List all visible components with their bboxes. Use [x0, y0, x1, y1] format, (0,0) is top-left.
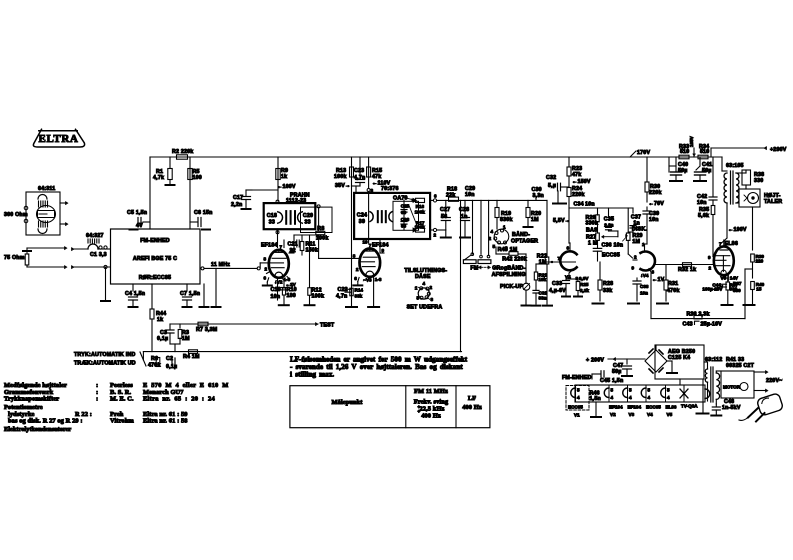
svg-text:7: 7 — [558, 256, 561, 261]
svg-text:~V3: ~V3 — [363, 278, 372, 283]
svg-text:E 570 M 4 eller E 610 M: E 570 M 4 eller E 610 M — [143, 382, 229, 389]
svg-text:TRYK:AUTOMATIK IND: TRYK:AUTOMATIK IND — [74, 352, 135, 358]
svg-text:7: 7 — [369, 243, 372, 248]
svg-text:ECC85: ECC85 — [568, 405, 583, 410]
svg-text:47k: 47k — [572, 172, 581, 178]
svg-text:1n-5kV: 1n-5kV — [722, 405, 741, 411]
svg-text:BAS: BAS — [586, 228, 598, 234]
svg-text:9: 9 — [382, 248, 385, 253]
svg-text:10n: 10n — [271, 294, 281, 300]
svg-text:180: 180 — [287, 293, 296, 299]
svg-text:64:311: 64:311 — [38, 186, 55, 192]
svg-text:+200V: +200V — [770, 147, 787, 153]
svg-text:1-3: 1-3 — [375, 277, 382, 282]
svg-text:100k: 100k — [334, 174, 347, 180]
svg-text:5: 5 — [667, 388, 670, 393]
svg-text:0,9V: 0,9V — [579, 276, 589, 281]
svg-text:300 Ohm: 300 Ohm — [4, 212, 28, 218]
svg-text:510: 510 — [680, 149, 689, 155]
svg-text:R14: R14 — [355, 288, 364, 293]
svg-text:C25: C25 — [401, 204, 410, 209]
svg-text:TRÆK:AUTOMATIK UD: TRÆK:AUTOMATIK UD — [74, 361, 136, 367]
svg-text:RØR:ECC85: RØR:ECC85 — [139, 275, 171, 281]
svg-text:64:327: 64:327 — [86, 233, 104, 239]
svg-text:R28: R28 — [603, 281, 613, 287]
svg-text:70:376: 70:376 — [381, 186, 399, 192]
svg-text:6: 6 — [567, 246, 570, 251]
svg-text:←70V: ←70V — [649, 201, 665, 207]
svg-text:50µ: 50µ — [678, 168, 688, 174]
svg-text:C26: C26 — [401, 217, 410, 222]
svg-text:Elektrolytkondensatorer: Elektrolytkondensatorer — [4, 426, 71, 433]
svg-text:4: 4 — [491, 229, 494, 234]
svg-text:220: 220 — [756, 259, 764, 264]
svg-text:GRogBÅND-: GRogBÅND- — [492, 265, 525, 272]
svg-text:4,7n: 4,7n — [354, 175, 365, 181]
svg-text:39: 39 — [359, 219, 365, 225]
svg-text:Medfølgende højttaler: Medfølgende højttaler — [4, 382, 67, 389]
svg-text:←1V: ←1V — [652, 277, 665, 283]
svg-text:2: 2 — [356, 267, 359, 272]
svg-text:2,2k: 2,2k — [580, 288, 589, 293]
svg-text:↓V4: ↓V4 — [641, 273, 649, 278]
svg-text:FM-ENHED: FM-ENHED — [140, 238, 170, 244]
svg-text:1n: 1n — [461, 214, 468, 220]
svg-text:2,2n: 2,2n — [231, 202, 242, 208]
svg-text:R7 3,3M: R7 3,3M — [196, 327, 218, 333]
svg-text:Potentiometre: Potentiometre — [4, 404, 43, 411]
svg-text:8: 8 — [353, 253, 356, 258]
svg-text:2: 2 — [634, 255, 637, 260]
svg-text:4: 4 — [611, 395, 614, 400]
svg-text:4,7k: 4,7k — [153, 175, 164, 181]
svg-text:150k: 150k — [306, 248, 319, 254]
svg-text:5: 5 — [493, 244, 496, 249]
svg-text:100µ-25V: 100µ-25V — [702, 287, 723, 292]
svg-text:0,1µ: 0,1µ — [157, 336, 168, 342]
svg-text:C24: C24 — [357, 213, 367, 219]
svg-text:170V: 170V — [637, 150, 650, 156]
svg-text:TILSLUTNINGS-: TILSLUTNINGS- — [404, 268, 447, 274]
svg-text:4: 4 — [577, 395, 580, 400]
svg-text:22,5 kHz: 22,5 kHz — [420, 406, 445, 413]
svg-text:C4 1,5n: C4 1,5n — [125, 291, 145, 297]
svg-text:63:105: 63:105 — [726, 163, 744, 169]
svg-text:2: 2 — [265, 267, 268, 272]
svg-text:5: 5 — [577, 388, 580, 393]
svg-text:MOTOR: MOTOR — [723, 385, 741, 390]
svg-text:+: + — [418, 409, 421, 414]
svg-text:33: 33 — [305, 220, 311, 226]
svg-text:2: 2 — [434, 233, 437, 238]
svg-text:50µ: 50µ — [702, 168, 712, 174]
svg-text:R25: R25 — [580, 282, 589, 287]
svg-text:C32: C32 — [546, 175, 556, 181]
svg-text:400 Hz: 400 Hz — [421, 413, 441, 420]
svg-text:AFSPILNING: AFSPILNING — [492, 272, 526, 278]
svg-text:ELTRA: ELTRA — [39, 133, 79, 145]
svg-text:9: 9 — [708, 255, 711, 260]
svg-text:100k: 100k — [415, 225, 426, 230]
svg-text:C7 1,5n: C7 1,5n — [180, 291, 200, 297]
svg-text:R4 1M: R4 1M — [183, 354, 200, 360]
svg-text:C36 10n: C36 10n — [602, 242, 624, 248]
svg-text:7: 7 — [280, 244, 283, 249]
svg-text:C22: C22 — [338, 287, 348, 293]
svg-text:4V: 4V — [136, 223, 143, 229]
svg-text:R32 1k: R32 1k — [678, 267, 696, 273]
svg-text:V1: V1 — [574, 413, 580, 418]
svg-text:Vitrohm: Vitrohm — [110, 418, 134, 425]
svg-text:4: 4 — [423, 281, 426, 286]
svg-text:50µ: 50µ — [612, 369, 622, 375]
svg-text:4: 4 — [629, 395, 632, 400]
svg-text:3: 3 — [652, 270, 655, 275]
svg-text:68: 68 — [401, 224, 407, 229]
svg-text:5,5V→: 5,5V→ — [553, 218, 570, 224]
svg-text:9: 9 — [632, 266, 635, 271]
svg-text:Målepunkt: Målepunkt — [331, 399, 363, 406]
svg-text:←150V: ←150V — [572, 179, 591, 185]
svg-text:100k: 100k — [415, 210, 426, 215]
svg-text:8: 8 — [264, 257, 267, 262]
svg-text:R37: R37 — [733, 281, 742, 286]
svg-text:C34 10n: C34 10n — [574, 202, 595, 208]
svg-text:2: 2 — [709, 266, 712, 271]
svg-text:330: 330 — [733, 288, 741, 293]
svg-text:Eltra nr. 61 : 58: Eltra nr. 61 : 58 — [143, 418, 188, 425]
svg-text:100: 100 — [193, 175, 202, 181]
svg-text:C43: C43 — [683, 322, 693, 328]
svg-text:10n: 10n — [465, 192, 475, 198]
svg-text:ECC85: ECC85 — [646, 405, 661, 410]
svg-text:V2: V2 — [610, 412, 616, 417]
svg-text:V3: V3 — [629, 412, 635, 417]
svg-text:PICK-UP: PICK-UP — [500, 284, 523, 290]
svg-text:33k: 33k — [603, 288, 612, 294]
svg-text:5: 5 — [648, 388, 651, 393]
svg-text:100k: 100k — [312, 294, 325, 300]
svg-text:R16: R16 — [416, 204, 425, 209]
svg-text:1k: 1k — [157, 317, 163, 323]
svg-text:220k: 220k — [572, 192, 585, 198]
svg-text:EF184: EF184 — [261, 243, 278, 249]
svg-text:LF: LF — [468, 395, 476, 402]
svg-text::: : — [96, 382, 98, 389]
svg-text:10: 10 — [363, 240, 369, 245]
svg-text:C18: C18 — [267, 213, 277, 219]
svg-text:EF184: EF184 — [628, 405, 642, 410]
svg-text:10n: 10n — [697, 200, 707, 206]
svg-text:10k: 10k — [539, 277, 547, 282]
svg-text:10n: 10n — [649, 217, 659, 223]
svg-text:C45 1,5n: C45 1,5n — [600, 378, 623, 384]
svg-text:C1 3,3: C1 3,3 — [90, 252, 107, 258]
svg-text:C33: C33 — [552, 281, 562, 287]
svg-text:56: 56 — [441, 214, 447, 220]
svg-text:5,µ: 5,µ — [548, 183, 556, 189]
svg-text:1M: 1M — [632, 239, 640, 245]
svg-text:33: 33 — [269, 220, 275, 226]
svg-text:470k: 470k — [148, 363, 161, 369]
svg-text:470k: 470k — [667, 288, 680, 294]
svg-text:FM: FM — [470, 266, 478, 272]
svg-text:830k: 830k — [500, 217, 513, 223]
svg-text:TV-Q3A: TV-Q3A — [681, 404, 698, 409]
svg-text:bas og disk. R 27 og R 29 :: bas og disk. R 27 og R 29 : — [8, 418, 83, 425]
svg-text:C20: C20 — [303, 213, 313, 219]
svg-text:C17: C17 — [233, 195, 243, 201]
svg-text:R36 3,3k: R36 3,3k — [687, 312, 710, 318]
svg-text:+ 200V: + 200V — [586, 358, 604, 364]
svg-text:1: 1 — [503, 225, 506, 230]
svg-text:AREFI BGE 75 C: AREFI BGE 75 C — [133, 256, 177, 262]
svg-text:TALER: TALER — [764, 199, 782, 205]
svg-text:33n: 33n — [539, 296, 547, 301]
svg-text:15: 15 — [756, 287, 762, 292]
svg-text:2,2n: 2,2n — [604, 222, 613, 227]
svg-text:10n: 10n — [640, 291, 648, 296]
svg-text:4: 4 — [667, 395, 670, 400]
svg-text:C5 1,5n: C5 1,5n — [127, 210, 147, 216]
svg-text:←160V: ←160V — [277, 184, 296, 190]
svg-text:SET UDEFRA: SET UDEFRA — [407, 305, 443, 311]
svg-text:FM-ENHED: FM-ENHED — [562, 375, 592, 381]
svg-text:5: 5 — [629, 388, 632, 393]
svg-text:220k: 220k — [649, 190, 662, 196]
svg-text:TEST: TEST — [320, 323, 335, 329]
svg-text:5,6k: 5,6k — [698, 213, 709, 219]
svg-text:i stilling max.: i stilling max. — [290, 371, 334, 379]
svg-text:R2 220k: R2 220k — [172, 149, 193, 155]
svg-text:35V→: 35V→ — [335, 183, 351, 189]
svg-text:←2V: ←2V — [286, 282, 297, 287]
svg-text:FM 11 MHz: FM 11 MHz — [414, 388, 448, 395]
svg-text:V4: V4 — [647, 412, 653, 417]
svg-text:1,5n: 1,5n — [590, 396, 601, 402]
svg-text:V5: V5 — [667, 412, 673, 417]
svg-text:↓V2: ↓V2 — [275, 280, 283, 285]
svg-text:1: 1 — [415, 286, 418, 291]
svg-text:100k: 100k — [316, 236, 329, 242]
svg-text:DÅSE: DÅSE — [415, 273, 431, 280]
svg-text:5: 5 — [611, 388, 614, 393]
svg-text:33k: 33k — [355, 293, 363, 298]
svg-text:68: 68 — [401, 210, 407, 215]
svg-text:510: 510 — [700, 149, 709, 155]
svg-text:6: 6 — [434, 194, 437, 199]
svg-text:C38: C38 — [640, 284, 649, 289]
svg-text:4,µ-6V: 4,µ-6V — [549, 288, 566, 294]
svg-text:ECC85: ECC85 — [602, 253, 620, 259]
svg-text:6: 6 — [354, 276, 357, 281]
svg-text:00325 C2T: 00325 C2T — [726, 363, 755, 369]
svg-text:C6 15n: C6 15n — [194, 210, 213, 216]
svg-text:1M: 1M — [182, 336, 190, 342]
svg-text:4: 4 — [648, 395, 651, 400]
svg-text:C27: C27 — [440, 207, 450, 213]
svg-text:BÅND-: BÅND- — [512, 231, 530, 238]
svg-text:220V~: 220V~ — [766, 378, 782, 384]
svg-text:C19: C19 — [271, 287, 281, 293]
svg-text:22: 22 — [290, 248, 296, 254]
svg-text:Peerless: Peerless — [110, 382, 133, 389]
svg-text:11 MHz: 11 MHz — [211, 262, 230, 268]
svg-text:Trykknapomskifter: Trykknapomskifter — [4, 396, 59, 403]
svg-text:330: 330 — [754, 178, 763, 184]
svg-text:C125 K4: C125 K4 — [668, 355, 690, 361]
svg-text:75 Ohm: 75 Ohm — [4, 255, 25, 261]
svg-text:1M: 1M — [531, 217, 539, 223]
svg-text:Eltra nr. 65 : 20 : 24: Eltra nr. 65 : 20 : 24 — [143, 396, 216, 403]
svg-text::: : — [96, 396, 98, 403]
svg-text:←190V: ←190V — [728, 227, 747, 233]
svg-text:2: 2 — [430, 285, 433, 290]
svg-text:3: 3 — [431, 297, 434, 302]
svg-text:22k: 22k — [446, 193, 455, 199]
svg-text:OPTAGER: OPTAGER — [511, 239, 538, 245]
svg-text:330k: 330k — [586, 221, 599, 227]
svg-text:165V: 165V — [689, 135, 694, 147]
svg-text:25µ-10V: 25µ-10V — [701, 322, 723, 328]
svg-text:R42 220k: R42 220k — [502, 256, 527, 262]
svg-text:1k: 1k — [281, 174, 287, 180]
svg-text:M. E. C.: M. E. C. — [110, 396, 134, 403]
svg-text:R31: R31 — [668, 281, 678, 287]
svg-text:400 Hz: 400 Hz — [462, 404, 482, 411]
svg-text:4,7n: 4,7n — [336, 294, 347, 300]
svg-text:5: 5 — [417, 296, 420, 301]
svg-text:6: 6 — [264, 276, 267, 281]
svg-text:EF184: EF184 — [609, 405, 623, 410]
svg-text:R6: R6 — [151, 356, 158, 362]
svg-text:C23: C23 — [354, 168, 364, 174]
svg-text:3,3n: 3,3n — [533, 193, 544, 199]
svg-text:1 M: 1 M — [588, 241, 598, 247]
svg-text:EL86: EL86 — [666, 405, 677, 410]
svg-text:47k: 47k — [372, 174, 381, 180]
